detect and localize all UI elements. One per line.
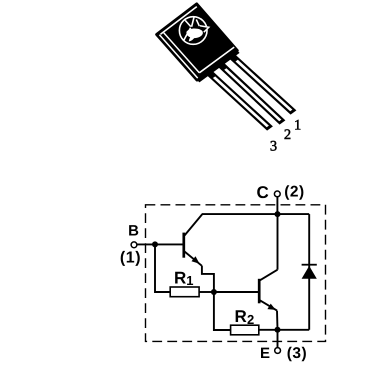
package lead 1 [228, 53, 297, 115]
transistor Q1 emitter arrow [192, 256, 200, 264]
diode D1 cathode bar [302, 264, 317, 266]
package body silhouette [157, 4, 238, 80]
svg-text:1: 1 [186, 273, 193, 288]
wire node to Q2 base [214, 291, 259, 293]
svg-text:R: R [174, 269, 186, 288]
svg-text:1: 1 [294, 117, 301, 133]
svg-text:R: R [235, 307, 247, 326]
svg-text:2: 2 [284, 127, 291, 143]
terminal E circle [275, 348, 281, 354]
node collector junction [275, 211, 281, 217]
package lead 2 [217, 61, 286, 124]
package face separation line lower-left outer [159, 35, 197, 78]
node R1 junction [211, 289, 217, 295]
svg-text:(2): (2) [284, 184, 304, 201]
svg-text:(1): (1) [120, 249, 141, 266]
bottom rail wire [259, 329, 309, 331]
svg-text:C: C [257, 183, 269, 202]
package lead 2 core [224, 68, 281, 121]
transistor Q1 collector [185, 214, 203, 235]
transistor Q2 base bar [258, 279, 261, 304]
diode D1 triangle [302, 266, 317, 279]
svg-text:E: E [260, 345, 270, 362]
package lead 1 core [236, 60, 293, 112]
diode branch wire [308, 214, 310, 330]
terminal B circle [131, 242, 137, 248]
transistor Q2 emitter [260, 300, 277, 310]
logo mark body blob [186, 29, 202, 42]
wire E terminal drop [277, 330, 279, 348]
wire R1 to node [199, 291, 214, 293]
wire C terminal drop [276, 197, 278, 214]
logo circle [179, 17, 207, 45]
transistor Q1 emitter [185, 252, 202, 266]
package lead 3 [205, 70, 273, 131]
wire Q2 emitter down to bottom rail [276, 311, 279, 330]
wire B junction down to R1 [155, 244, 170, 292]
resistor R2 [231, 325, 259, 335]
wire top rail collector [202, 213, 309, 215]
wire Q2 collector up to rail [277, 214, 279, 270]
logo notch [200, 26, 209, 32]
transistor Q1 base bar [182, 233, 185, 258]
package face separation line upper-left [161, 7, 197, 35]
svg-text:B: B [128, 223, 139, 240]
node B junction [152, 241, 158, 247]
svg-text:(3): (3) [287, 345, 307, 362]
wire B to base of Q1 [137, 243, 183, 245]
resistor R1 [170, 287, 199, 297]
dashed outline box [146, 205, 326, 342]
wire Q1 emitter to node [202, 266, 214, 292]
package bottom side strip [197, 51, 240, 83]
transistor Q2 collector [260, 270, 278, 281]
wire node down to R2 [214, 292, 231, 330]
package lead 3 core [213, 76, 269, 127]
transistor package (TO-126 case drawing) [157, 4, 297, 131]
svg-text:3: 3 [270, 138, 277, 154]
node emitter junction [275, 327, 281, 333]
logo mark wedge [185, 20, 191, 26]
transistor Q2 emitter arrow [267, 304, 275, 310]
package face separation line lower-left inner [164, 33, 200, 73]
terminal C circle [274, 191, 280, 197]
package face separation line bottom-right [199, 47, 234, 73]
